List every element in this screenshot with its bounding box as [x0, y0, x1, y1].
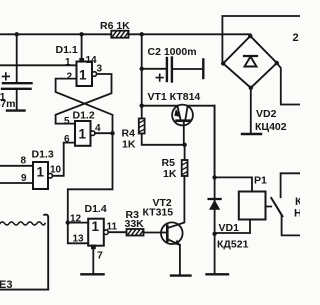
- svg-text:13: 13: [73, 234, 85, 245]
- svg-text:2: 2: [67, 72, 73, 83]
- svg-text:Н: Н: [294, 208, 300, 220]
- svg-text:1: 1: [92, 219, 100, 234]
- svg-text:7: 7: [97, 250, 103, 262]
- wire R3 to VT2 base: [144, 232, 167, 234]
- resistor R4: [139, 119, 145, 134]
- svg-text:1: 1: [37, 165, 45, 180]
- node A: VT1 emitter / R4: [140, 104, 144, 108]
- wire +V vertical feed x=141.7: [141, 34, 143, 118]
- gate D1.2: [75, 121, 95, 146]
- wire upper AC line to right edge: [222, 16, 300, 64]
- svg-text:R6 1K: R6 1K: [100, 20, 130, 32]
- svg-text:К: К: [295, 196, 300, 208]
- svg-text:D1.4: D1.4: [85, 203, 107, 215]
- svg-text:E3: E3: [0, 279, 12, 291]
- svg-text:C2 1000m: C2 1000m: [148, 46, 197, 58]
- node: bridge left corner: [221, 61, 225, 65]
- svg-text:2: 2: [293, 32, 299, 44]
- wire D1.4 output to R3: [108, 231, 126, 233]
- wire bridge right corner to right edge: [277, 63, 300, 105]
- svg-text:47m: 47m: [0, 98, 16, 110]
- svg-text:КЦ402: КЦ402: [255, 121, 287, 133]
- wire relay top lead: [215, 177, 252, 191]
- pin 1 wire of D1.1 from left edge: [0, 64, 77, 66]
- node: relay bottom / VD1: [212, 232, 216, 236]
- relay P1 coil: [239, 192, 266, 220]
- pin 13 wire: [68, 223, 88, 244]
- svg-text:1: 1: [79, 68, 87, 83]
- pin 14 wire of D1.1: [81, 34, 83, 58]
- node: bridge bottom corner: [249, 86, 253, 90]
- node: top rail / D1.1 pin14: [79, 32, 83, 36]
- svg-text:1: 1: [79, 127, 87, 142]
- node B: R4/R5/VT1 base: [182, 143, 186, 147]
- svg-text:5: 5: [64, 116, 70, 127]
- svg-text:КД521: КД521: [217, 239, 249, 251]
- svg-text:VT1 КТ814: VT1 КТ814: [148, 91, 201, 103]
- node: D1.4 inputs junction: [66, 220, 70, 224]
- ground (D1.4 pin 7): [81, 273, 103, 275]
- wire bridge bottom to ground: [250, 88, 252, 133]
- transistor VT2 KT315 (NPN): [161, 222, 183, 245]
- diode bridge VD2: [223, 36, 277, 88]
- svg-text:9: 9: [21, 173, 27, 184]
- wire node B to R5: [184, 145, 186, 160]
- svg-text:D1.1: D1.1: [56, 44, 78, 56]
- resistor R5: [182, 160, 188, 176]
- transistor VT1 KT814 (PNP): [172, 105, 193, 145]
- pin 7 wire and pad: [91, 245, 96, 250]
- water tank E3 (wavy container): [0, 215, 48, 290]
- ground (C1): [7, 109, 25, 111]
- gate D1.1: [77, 62, 97, 87]
- wire relay bottom lead: [215, 220, 250, 234]
- svg-text:КТ315: КТ315: [143, 207, 174, 219]
- wire R5 to VT2 collector: [167, 176, 185, 228]
- svg-text:8: 8: [21, 156, 27, 167]
- svg-text:VD2: VD2: [256, 108, 277, 120]
- node: C2 tap: [140, 67, 144, 71]
- svg-text:33K: 33K: [125, 218, 145, 230]
- svg-text:1K: 1K: [122, 139, 136, 151]
- wire D1.1 output to D1.2 input 5 (cross-coupling): [56, 74, 112, 124]
- node: top rail / C1: [15, 32, 19, 36]
- wire top +V rail: [0, 33, 250, 35]
- svg-text:D1.2: D1.2: [73, 110, 95, 122]
- relay contact bottom terminal: [282, 216, 300, 235]
- relay contact fixed terminal top: [281, 173, 300, 197]
- svg-text:1K: 1K: [163, 168, 177, 180]
- node: bridge top corner: [248, 34, 252, 38]
- wire D1.2 output down to D1.4 inputs: [68, 133, 113, 222]
- pin 9 wire from left edge: [0, 182, 33, 184]
- svg-text:10: 10: [50, 165, 62, 176]
- wire R4 bottom to node B: [142, 134, 185, 145]
- svg-text:14: 14: [86, 55, 98, 66]
- ground (VD1/relay): [207, 273, 229, 275]
- wire VT2 emitter to ground: [179, 245, 181, 275]
- wire VT1 emitter to +V node: [142, 105, 178, 107]
- wire VT1 collector to relay vertical: [188, 106, 215, 178]
- node: bridge right corner: [275, 61, 279, 65]
- pin 12 wire: [68, 222, 88, 224]
- wire D1.3 output to D1.2 input 6: [53, 143, 76, 176]
- resistor R3: [127, 229, 144, 236]
- node: relay top / VD1: [212, 175, 216, 179]
- relay actuator dashed link: [266, 206, 271, 208]
- svg-text:1: 1: [65, 57, 71, 68]
- node: top rail / R6-vertical: [140, 32, 144, 36]
- gate D1.4: [88, 219, 108, 246]
- wire D1.2 output to D1.1 input 2 (cross-coupling): [56, 79, 113, 134]
- svg-text:D1.3: D1.3: [32, 149, 54, 161]
- ground (bridge): [242, 133, 261, 135]
- node: D1.2 output junction: [110, 131, 114, 135]
- capacitor C2: [142, 58, 204, 82]
- resistor R6: [111, 31, 128, 38]
- svg-text:3: 3: [97, 64, 103, 75]
- capacitor C1: [2, 34, 32, 109]
- ground (VT2 emitter): [171, 274, 191, 276]
- relay contact arm: [271, 198, 282, 216]
- svg-text:12: 12: [70, 214, 82, 225]
- svg-text:11: 11: [107, 222, 118, 233]
- diode VD1: [209, 106, 221, 274]
- gate D1.3: [33, 162, 53, 189]
- svg-text:Р1: Р1: [254, 175, 267, 187]
- pin 8 wire from left edge: [0, 165, 33, 167]
- wire D1.2 output: [95, 132, 113, 134]
